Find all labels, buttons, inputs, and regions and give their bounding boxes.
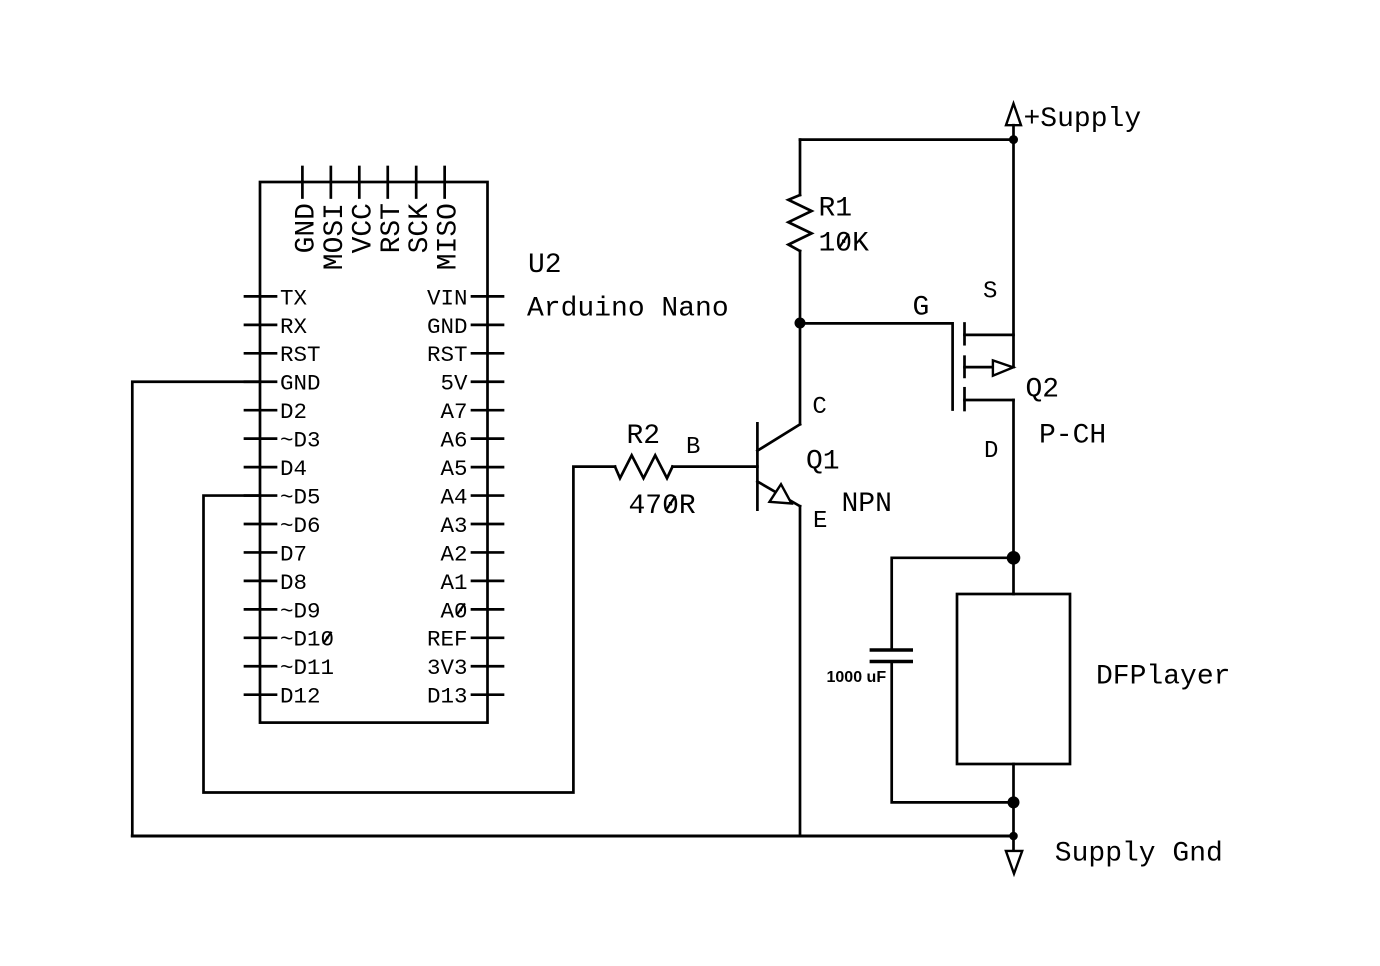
svg-text:1000 uF: 1000 uF [827,669,887,686]
transistor Q1 emitter arrow [770,484,792,503]
svg-text:RX: RX [280,314,308,340]
label P-CH [1039,421,1106,452]
pin A6 (U2 right) [440,428,503,454]
wire ~D5 to R2 [204,467,616,793]
svg-text:D8: D8 [280,570,307,596]
slash of zero in 470R [666,496,676,511]
pin A2 (U2 right) [440,541,503,567]
svg-text:D2: D2 [280,399,307,425]
transistor Q1 collector diagonal [757,424,800,450]
wire R1 bottom lead to node [799,251,802,323]
DFPlayer box [957,594,1070,764]
svg-text:P-CH: P-CH [1039,421,1106,452]
capacitor 1000uF plates [870,650,913,662]
svg-text:R1: R1 [819,194,853,225]
svg-text:GND: GND [427,314,468,340]
svg-text:TX: TX [280,285,308,311]
svg-text:D4: D4 [280,456,307,482]
pin GND (U2 top) [291,167,322,253]
label 470R [629,491,696,522]
svg-text:5V: 5V [440,371,468,397]
svg-text:D7: D7 [280,541,307,567]
pin D4 (U2 left) [245,456,307,482]
label G (Q2 gate) [913,293,930,324]
svg-text:MISO: MISO [434,203,465,270]
junction node capacitor bottom [1008,796,1020,808]
pin D12 (U2 left) [245,684,321,710]
wire bottom ground run [132,835,1013,838]
svg-text:REF: REF [427,627,468,653]
ground Supply Gnd arrow [1006,851,1022,874]
transistor Q2 drain connection [965,399,1014,402]
label R1 [819,194,853,225]
pin D13 (U2 right) [427,684,503,710]
pin ~D3 (U2 left) [245,428,321,454]
svg-text:Q1: Q1 [806,447,840,478]
svg-text:NPN: NPN [842,489,892,520]
svg-text:A1: A1 [440,570,467,596]
wire DFPlayer bottom vertical [1012,764,1015,851]
transistor Q1 base bar [756,423,759,509]
svg-text:B: B [686,434,700,461]
label S (Q2 source) [983,279,997,306]
resistor R1 [788,195,811,251]
resistor R2 [615,455,673,478]
svg-text:GND: GND [291,203,322,253]
wire R2 to Q1 base [673,465,758,468]
pin A5 (U2 right) [440,456,503,482]
svg-text:D12: D12 [280,684,321,710]
label 10K [819,229,870,260]
label 1000 uF [827,669,887,686]
svg-text:R2: R2 [627,421,661,452]
pin A0 (U2 right) [440,598,503,624]
wire Q2 source vertical [1012,140,1015,367]
pin GND (U2 left) [245,371,321,397]
svg-text:S: S [983,279,997,306]
label NPN [842,489,892,520]
svg-text:D: D [984,438,998,465]
svg-text:A7: A7 [440,399,467,425]
svg-text:E: E [813,508,827,535]
svg-text:~D6: ~D6 [280,513,321,539]
svg-text:RST: RST [280,342,321,368]
label B (Q1 base) [686,434,700,461]
pin VIN (U2 right) [427,285,503,311]
svg-text:GND: GND [280,371,321,397]
pin 3V3 (U2 right) [427,655,503,681]
junction node R1/Q1/gate [795,318,806,329]
wire Q1 collector to node [799,323,802,424]
svg-text:DFPlayer: DFPlayer [1096,662,1230,693]
label U2 [528,250,562,281]
label R2 [627,421,661,452]
slash of zero in ~D10 [323,632,331,644]
wire node to Q2 gate [800,323,953,409]
wire R1 top lead [799,140,802,195]
label E (Q1 emitter) [813,508,827,535]
pin D2 (U2 left) [245,399,307,425]
pin RST (U2 top) [377,167,408,253]
pin ~D6 (U2 left) [245,513,321,539]
pin TX (U2 left) [245,285,308,311]
pin A3 (U2 right) [440,513,503,539]
pin ~D11 (U2 left) [245,655,334,681]
slash of zero in A0 [457,603,465,615]
svg-text:A3: A3 [440,513,467,539]
svg-text:RST: RST [377,203,408,253]
svg-text:RST: RST [427,342,468,368]
pin A1 (U2 right) [440,570,503,596]
label Supply Gnd [1055,839,1223,870]
svg-text:A6: A6 [440,428,467,454]
svg-text:C: C [812,394,826,421]
label DFPlayer [1096,662,1230,693]
svg-text:3V3: 3V3 [427,655,468,681]
transistor Q1 emitter diagonal [757,482,800,507]
svg-text:A5: A5 [440,456,467,482]
pin REF (U2 right) [427,627,503,653]
label Q1 [806,447,840,478]
pin ~D5 (U2 left) [245,484,321,510]
pin GND (U2 right) [427,314,503,340]
svg-text:A2: A2 [440,541,467,567]
pin VCC (U2 top) [348,167,379,253]
svg-text:D13: D13 [427,684,468,710]
pin MISO (U2 top) [434,167,465,270]
label Arduino Nano [527,294,729,325]
svg-text:Q2: Q2 [1026,375,1060,406]
wire +supply top run [800,138,1014,141]
svg-text:U2: U2 [528,250,562,281]
pin RST (U2 left) [245,342,321,368]
wire GND pin to left vertical [132,382,260,836]
transistor Q2 channel segments [963,324,966,411]
svg-text:+Supply: +Supply [1024,104,1142,135]
svg-text:A0: A0 [440,598,467,624]
wire capacitor bottom to node [892,663,1014,802]
svg-text:~D3: ~D3 [280,428,321,454]
pin ~D9 (U2 left) [245,598,321,624]
transistor Q2 source connection [965,334,1014,337]
pin A7 (U2 right) [440,399,503,425]
svg-text:G: G [913,293,930,324]
label Q2 [1026,375,1060,406]
power +Supply arrow [1006,104,1021,140]
svg-text:~D9: ~D9 [280,598,321,624]
pin RST (U2 right) [427,342,503,368]
label C (Q1 collector) [812,394,826,421]
svg-text:Arduino Nano: Arduino Nano [527,294,729,325]
svg-text:470R: 470R [629,491,696,522]
junction node DFPlayer top [1007,551,1021,565]
pin A4 (U2 right) [440,484,503,510]
label D (Q2 drain) [984,438,998,465]
pin D8 (U2 left) [245,570,307,596]
pin 5V (U2 right) [440,371,503,397]
svg-text:VIN: VIN [427,285,468,311]
svg-text:SCK: SCK [405,203,436,254]
pin SCK (U2 top) [405,167,436,253]
label +Supply [1024,104,1142,135]
wire Q2 drain vertical [1012,400,1015,594]
wire Q1 emitter to ground run [799,506,802,836]
svg-text:MOSI: MOSI [320,203,351,270]
svg-text:Supply Gnd: Supply Gnd [1055,839,1223,870]
svg-text:10K: 10K [819,229,870,260]
svg-text:A4: A4 [440,484,467,510]
junction node +Supply [1009,135,1018,144]
wire node to capacitor top [892,558,1014,649]
IC U2 Arduino Nano body [260,182,488,723]
pin RX (U2 left) [245,314,308,340]
pin D7 (U2 left) [245,541,307,567]
junction node ground [1009,832,1018,841]
pin ~D10 (U2 left) [245,627,334,653]
pin MOSI (U2 top) [320,167,351,270]
svg-text:VCC: VCC [348,203,379,253]
transistor Q2 body arrow [965,360,1014,375]
svg-text:~D11: ~D11 [280,655,334,681]
svg-text:~D5: ~D5 [280,484,321,510]
slash of zero in 10K [839,234,849,249]
